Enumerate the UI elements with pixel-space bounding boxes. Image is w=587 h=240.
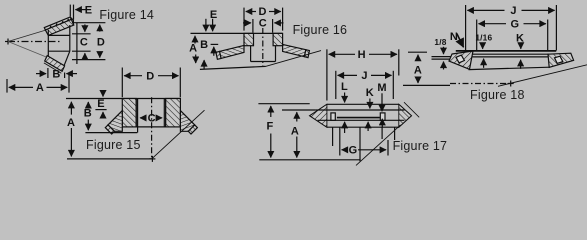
fig18 dim A arrows xyxy=(417,55,419,83)
fig16 hub lower boss xyxy=(251,46,276,62)
fig15 nut bottom face xyxy=(136,126,166,128)
fig16 left wing tip xyxy=(216,51,221,59)
fig17 top ref line2 xyxy=(282,109,316,111)
svg-text:C: C xyxy=(259,18,267,30)
svg-text:G: G xyxy=(511,18,520,30)
fig15 dim D extension lines xyxy=(122,68,180,98)
fig14 dim C arrows xyxy=(84,24,86,58)
fig17 inner lines xyxy=(316,110,405,120)
fig18 left tooth diamond xyxy=(456,55,464,63)
fig14 dim C lines xyxy=(72,23,105,64)
fig14 gear lower rim hatched xyxy=(45,56,65,72)
fig14 gear top face band xyxy=(44,17,71,30)
svg-text:C: C xyxy=(80,36,88,48)
svg-text:E: E xyxy=(97,98,104,110)
svg-text:B: B xyxy=(200,39,208,51)
svg-text:K: K xyxy=(516,32,524,44)
fig16 right wing hatched xyxy=(283,44,306,56)
svg-text:D: D xyxy=(259,6,267,18)
svg-text:A: A xyxy=(414,65,422,77)
svg-text:G: G xyxy=(349,145,358,157)
svg-text:B: B xyxy=(52,68,60,80)
svg-text:D: D xyxy=(146,70,154,82)
svg-text:1/8: 1/8 xyxy=(434,37,446,47)
svg-text:A: A xyxy=(36,82,44,94)
fig15 dim A arrows xyxy=(70,102,72,157)
fig18 washer slab lines xyxy=(473,54,549,57)
fig17 diagonal xyxy=(356,125,401,165)
fig17 right tip extension line xyxy=(404,102,419,117)
fig15 apex cross xyxy=(149,156,155,162)
fig15 right wall hatched xyxy=(166,99,181,127)
svg-text:M: M xyxy=(377,82,386,94)
svg-text:1/16: 1/16 xyxy=(475,32,492,42)
fig14 back cone edge xyxy=(64,51,70,66)
fig16 dim B tick and arrow xyxy=(211,44,219,55)
fig17 lower extension lines xyxy=(333,127,395,161)
svg-text:Figure 16: Figure 16 xyxy=(293,23,348,37)
svg-text:A: A xyxy=(189,43,197,55)
fig17 dim F arrows xyxy=(270,106,272,158)
fig18 dim J line xyxy=(467,9,554,11)
fig16 right wing tip xyxy=(304,50,309,58)
fig15 dim C arrows xyxy=(140,117,162,119)
fig17 dim H extension lines xyxy=(327,49,399,100)
fig18 dim A tick xyxy=(408,51,427,53)
fig14 hub outline xyxy=(48,25,70,58)
svg-text:J: J xyxy=(361,70,367,82)
fig17 dim L arrows xyxy=(344,93,346,134)
fig18 left edge lines xyxy=(432,57,455,60)
fig18 apex diagonal xyxy=(498,65,587,87)
svg-text:C: C xyxy=(148,113,156,125)
fig14 dim E arrow xyxy=(75,9,87,11)
fig16 dim A arrows xyxy=(194,36,197,63)
fig15 hole left wall lines xyxy=(136,99,137,133)
fig18 washer bottom line xyxy=(469,67,551,69)
fig16 centerline xyxy=(262,28,264,67)
svg-text:F: F xyxy=(267,121,274,133)
svg-text:B: B xyxy=(84,108,92,120)
fig18 dim 1/8 arrows xyxy=(443,47,445,70)
svg-text:E: E xyxy=(210,9,217,21)
fig16 left wing hatched xyxy=(220,45,245,58)
fig18 axis dash line xyxy=(450,83,510,85)
fig17 top ref line1 xyxy=(258,103,309,105)
svg-text:Figure 18: Figure 18 xyxy=(470,88,525,102)
fig14 dim D arrows xyxy=(99,25,101,58)
fig17 dim G line xyxy=(342,149,387,151)
fig18 right tooth diamond xyxy=(555,56,563,63)
fig18 left tip hatched xyxy=(449,51,473,69)
fig17 left end hatched xyxy=(310,104,327,127)
svg-text:K: K xyxy=(366,87,374,99)
svg-text:N: N xyxy=(450,31,458,43)
svg-text:Figure 17: Figure 17 xyxy=(393,139,448,153)
svg-text:H: H xyxy=(358,49,366,61)
fig17 dim H line xyxy=(329,53,397,55)
fig16 dim C arrows xyxy=(243,22,284,24)
fig16 baseline xyxy=(200,66,266,69)
fig15 bottom ref line xyxy=(67,158,152,160)
fig18 apex cross xyxy=(508,81,514,87)
fig15 dim B arrows xyxy=(87,102,89,130)
fig14 dim A extension lines xyxy=(7,74,69,93)
fig15 apex diagonal xyxy=(152,110,204,158)
fig18 dim G line xyxy=(479,23,546,25)
fig15 right wing tip cap xyxy=(188,125,197,134)
fig18 N leader arrow xyxy=(457,34,464,48)
svg-text:E: E xyxy=(85,5,92,17)
fig17 dim J line xyxy=(338,74,392,76)
fig18 washer top face line xyxy=(456,50,556,52)
fig14 centerline xyxy=(8,41,62,43)
svg-text:Figure 15: Figure 15 xyxy=(86,138,141,152)
svg-text:D: D xyxy=(97,36,105,48)
fig17 part outline xyxy=(310,104,412,127)
fig18 dim G extension lines xyxy=(477,20,548,51)
fig14 dim A line xyxy=(9,86,67,88)
fig17 dim K arrows xyxy=(368,99,370,132)
fig14 gear top rim hatched xyxy=(45,19,73,35)
fig14 dim E extension lines xyxy=(70,5,73,20)
fig16 hub left wall hatched xyxy=(244,33,254,45)
fig17 dim M arrows xyxy=(381,93,383,127)
fig17 right end hatched xyxy=(399,104,412,127)
fig16 dim E arrows xyxy=(206,19,213,31)
fig16 dim C extension stubs xyxy=(253,19,273,33)
fig17 dim J extension lines xyxy=(336,71,394,99)
fig15 centerline xyxy=(151,97,153,159)
svg-text:L: L xyxy=(341,81,348,93)
fig14 dim B arrows xyxy=(36,73,77,75)
fig18 dim A bottom line xyxy=(403,84,450,86)
svg-text:Figure 14: Figure 14 xyxy=(99,8,154,22)
fig14 apex cross xyxy=(5,39,11,45)
fig16 cone diagonal xyxy=(266,51,322,67)
fig14 rim right face xyxy=(70,17,73,24)
fig17 small insert rects xyxy=(331,113,385,120)
fig15 left wing hatched xyxy=(108,111,122,132)
fig18 dim 1/16 arrows xyxy=(483,43,484,68)
svg-text:A: A xyxy=(291,125,299,137)
fig15 dim E marks xyxy=(95,91,106,117)
fig15 dim D line xyxy=(124,75,178,77)
svg-text:A: A xyxy=(67,117,75,129)
fig16 top surface line xyxy=(191,32,283,34)
fig15 right wing hatched xyxy=(180,111,194,132)
svg-text:J: J xyxy=(510,5,516,17)
fig15 dim B bottom ref line xyxy=(85,132,137,134)
fig17 dim A arrows xyxy=(296,112,298,157)
fig15 left wing tip cap xyxy=(105,125,114,134)
fig18 dim J extension lines xyxy=(466,5,557,51)
fig14 dim B extension lines xyxy=(48,68,65,78)
fig17 bottom baseline xyxy=(259,159,360,161)
fig15 hole right wall lines xyxy=(164,99,165,127)
fig15 left wall hatched xyxy=(122,99,136,127)
fig14 lower face line xyxy=(44,63,61,73)
fig16 dim D line xyxy=(246,11,281,13)
fig16 small up arrow at baseline xyxy=(203,60,205,69)
fig16 hub right wall hatched xyxy=(273,33,283,45)
fig18 right tip hatched xyxy=(548,53,574,67)
fig14 pitch cone line top xyxy=(8,23,70,42)
fig16 dim D extension lines xyxy=(244,8,283,31)
fig15 top extension line xyxy=(66,98,181,100)
fig14 pitch cone line bottom xyxy=(8,42,48,58)
fig18 dim K arrows xyxy=(520,44,522,69)
